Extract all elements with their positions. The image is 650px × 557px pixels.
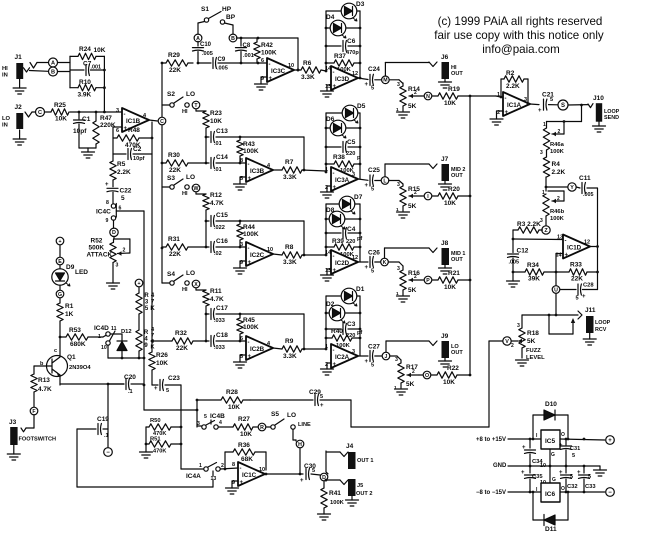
svg-text:IC6: IC6: [545, 491, 556, 498]
resistor R40: [326, 328, 360, 349]
svg-text:5: 5: [572, 453, 575, 459]
svg-text:14: 14: [325, 66, 332, 72]
svg-text:N: N: [426, 94, 430, 100]
ground R41: [318, 514, 331, 520]
svg-text:S5: S5: [271, 411, 279, 418]
resistor R4: [543, 150, 565, 177]
capacitor C17: [205, 305, 304, 324]
svg-text:5: 5: [550, 97, 553, 103]
LED D6: [326, 116, 360, 138]
node D envelope: [110, 220, 118, 236]
svg-text:+: +: [300, 478, 304, 484]
wire IC1A out: [530, 103, 539, 106]
svg-text:2.2K: 2.2K: [506, 83, 520, 90]
svg-text:+: +: [240, 480, 244, 486]
svg-text:D6: D6: [326, 116, 335, 123]
svg-text:OUT 1: OUT 1: [357, 458, 373, 464]
op-amp IC1B: [116, 108, 149, 134]
svg-text:470p: 470p: [346, 50, 359, 56]
svg-text:pf: pf: [357, 330, 362, 336]
wire limiter3 left rail: [325, 204, 328, 256]
LED D5: [326, 103, 366, 123]
ground J7: [439, 181, 452, 190]
resistor R44: [237, 221, 259, 248]
regulator IC5: [536, 430, 565, 458]
svg-text:LO: LO: [186, 174, 195, 181]
svg-text:C2: C2: [133, 146, 142, 153]
svg-text:10pf: 10pf: [73, 128, 87, 135]
op-amp IC2D: [325, 250, 358, 274]
svg-text:C20: C20: [124, 374, 136, 381]
svg-text:C15: C15: [216, 212, 228, 219]
svg-text:p: p: [357, 155, 361, 161]
svg-text:R53: R53: [69, 327, 81, 334]
label GND: [493, 463, 507, 469]
svg-text:100K: 100K: [261, 50, 277, 57]
capacitor C27: [358, 344, 382, 369]
svg-text:LED: LED: [75, 269, 88, 276]
svg-text:5: 5: [312, 468, 315, 474]
wire R18 top line: [522, 314, 578, 317]
svg-text:R5: R5: [117, 161, 126, 168]
svg-text:HI: HI: [182, 191, 188, 197]
jack J2 LO IN: [2, 104, 32, 129]
svg-text:C33: C33: [585, 484, 596, 490]
wire right rail of input network: [103, 56, 106, 113]
wire R52 wiper loop: [114, 239, 130, 256]
svg-text:J8: J8: [441, 240, 449, 247]
svg-text:OUT 2: OUT 2: [356, 491, 372, 497]
resistor R13: [31, 374, 52, 407]
svg-text:O: O: [561, 432, 565, 438]
wire row3 riser: [303, 221, 306, 256]
svg-text:P: P: [426, 278, 430, 284]
svg-text:R28: R28: [226, 389, 238, 396]
pot R46a: [540, 122, 565, 157]
wire J1 to node A: [30, 63, 49, 72]
ground J10: [593, 122, 606, 132]
svg-text:C10: C10: [200, 42, 212, 48]
svg-text:22K: 22K: [169, 167, 181, 174]
svg-text:J6: J6: [441, 54, 449, 61]
svg-text:R38: R38: [333, 154, 345, 161]
svg-text:-: -: [248, 246, 250, 252]
svg-text:-: -: [240, 466, 242, 472]
svg-text:R43: R43: [243, 141, 255, 148]
svg-text:.01: .01: [214, 141, 222, 147]
svg-text:ATTACK: ATTACK: [87, 252, 113, 259]
capacitor C13: [205, 128, 304, 147]
svg-text:+: +: [105, 182, 109, 188]
svg-text:R47: R47: [100, 115, 112, 122]
svg-text:OUT: OUT: [451, 173, 463, 179]
svg-text:M: M: [383, 78, 387, 84]
node V: [503, 337, 511, 345]
svg-text:IC1D: IC1D: [567, 245, 582, 252]
svg-text:IC2D: IC2D: [335, 260, 350, 267]
svg-text:3: 3: [540, 150, 543, 156]
resistor R19: [432, 86, 470, 107]
svg-text:+: +: [365, 82, 369, 88]
svg-text:3: 3: [197, 421, 200, 427]
LED D8: [326, 207, 360, 229]
svg-text:LO: LO: [186, 270, 195, 277]
svg-text:R27: R27: [238, 416, 250, 423]
svg-text:6: 6: [261, 58, 264, 64]
ground IC3D: [321, 85, 334, 97]
ground IC3B: [234, 177, 247, 190]
svg-text:J2: J2: [15, 104, 23, 111]
svg-text:Q1: Q1: [67, 354, 76, 361]
svg-text:220: 220: [346, 151, 355, 157]
ground C12 R34: [507, 271, 526, 287]
resistor R37: [326, 53, 360, 73]
op-amp IC2A: [325, 344, 358, 368]
node O: [423, 371, 431, 379]
svg-text:3.3K: 3.3K: [283, 259, 297, 266]
svg-text:R48: R48: [128, 127, 140, 134]
resistor R30: [162, 152, 207, 174]
svg-text:IC2C: IC2C: [250, 252, 265, 259]
node plus output: [606, 436, 615, 445]
wire limiter1 right rail: [359, 11, 362, 79]
svg-text:X: X: [194, 282, 198, 288]
svg-text:13: 13: [211, 476, 217, 482]
svg-text:3: 3: [395, 357, 398, 363]
svg-text:C11: C11: [579, 175, 591, 182]
wire minus rail: [508, 491, 605, 494]
svg-text:J1: J1: [15, 54, 23, 61]
wiper R17 to O: [407, 369, 423, 377]
svg-text:5K: 5K: [406, 381, 415, 388]
svg-text:D11: D11: [545, 526, 557, 533]
resistor R23: [196, 109, 222, 137]
svg-text:S: S: [561, 103, 565, 109]
svg-text:+: +: [582, 294, 586, 300]
svg-text:G: G: [552, 477, 556, 483]
LED D7: [326, 194, 363, 214]
capacitor C6: [326, 38, 360, 56]
svg-text:10K: 10K: [210, 118, 222, 125]
svg-text:IC3A: IC3A: [335, 177, 350, 184]
svg-text:IC4C: IC4C: [96, 209, 111, 216]
svg-text:R20: R20: [448, 186, 460, 193]
resistor R26: [149, 352, 169, 385]
capacitor C23: [152, 375, 181, 394]
svg-text:K: K: [150, 306, 155, 312]
svg-text:LINE: LINE: [298, 422, 311, 428]
capacitor C16: [206, 221, 246, 257]
resistor R50: [146, 418, 181, 437]
svg-text:10K: 10K: [240, 431, 252, 438]
svg-text:BP: BP: [226, 14, 236, 21]
jack J3 FOOTSWITCH: [9, 419, 56, 445]
ground IC1A: [490, 111, 503, 125]
svg-text:8: 8: [232, 462, 235, 468]
switch S4: [162, 270, 195, 293]
svg-text:C25: C25: [368, 167, 380, 174]
diode D12: [110, 329, 132, 358]
wire limiter2 left rail: [325, 113, 328, 173]
svg-text:22K: 22K: [169, 67, 181, 74]
svg-text:J7: J7: [441, 156, 449, 163]
capacitor C20: [60, 374, 144, 395]
svg-text:HI: HI: [182, 109, 188, 115]
svg-text:LOOP: LOOP: [595, 320, 611, 326]
svg-text:D1: D1: [356, 286, 365, 293]
svg-text:C27: C27: [368, 344, 380, 351]
svg-text:R3 2.2K: R3 2.2K: [517, 221, 541, 228]
svg-text:10K: 10K: [94, 47, 106, 54]
node W: [192, 184, 200, 192]
resistor R5: [110, 154, 131, 180]
svg-text:+: +: [521, 470, 525, 476]
svg-text:D8: D8: [326, 207, 335, 214]
LED D9: [52, 264, 89, 286]
svg-text:c: c: [54, 348, 57, 354]
svg-text:2: 2: [414, 90, 417, 96]
svg-text:1: 1: [497, 92, 500, 98]
svg-text:D2: D2: [326, 301, 335, 308]
svg-text:OUT: OUT: [451, 257, 463, 263]
svg-text:C: C: [160, 119, 164, 125]
wire plus to E: [59, 245, 61, 256]
svg-text:5: 5: [320, 394, 323, 400]
node C input: [36, 108, 45, 117]
resistor R41: [321, 488, 345, 514]
svg-text:+: +: [538, 108, 542, 114]
op-amp IC2C: [240, 242, 273, 266]
wire K to pot R16: [388, 262, 403, 266]
svg-text:100K: 100K: [243, 324, 259, 331]
svg-text:C5: C5: [347, 139, 356, 146]
capacitor C1: [73, 112, 91, 148]
capacitor C26: [358, 250, 381, 275]
svg-text:10: 10: [267, 247, 273, 253]
analog switch IC4C: [96, 200, 144, 224]
resistor R1: [57, 298, 74, 321]
svg-text:C23: C23: [168, 375, 180, 382]
svg-text:8: 8: [240, 158, 243, 164]
svg-text:J3: J3: [9, 419, 17, 426]
svg-text:4: 4: [219, 420, 222, 426]
svg-text:G: G: [551, 452, 555, 458]
svg-text:1: 1: [98, 334, 101, 340]
op-amp IC3C: [261, 58, 294, 82]
ground IC3A: [321, 186, 334, 198]
ground IC2A: [321, 363, 334, 375]
svg-text:D3: D3: [356, 1, 365, 8]
svg-text:5: 5: [371, 363, 374, 369]
svg-text:+: +: [565, 253, 569, 259]
svg-text:10: 10: [259, 467, 265, 473]
svg-text:C3: C3: [347, 321, 356, 328]
capacitor C32: [559, 466, 578, 493]
svg-text:+: +: [269, 76, 273, 82]
svg-text:R26: R26: [156, 352, 168, 359]
svg-text:R19: R19: [448, 86, 460, 93]
svg-text:HI: HI: [2, 66, 8, 72]
svg-text:39K: 39K: [528, 276, 540, 283]
capacitor C24: [358, 66, 382, 92]
capacitor C15: [205, 212, 304, 231]
analog switch IC4A: [181, 463, 224, 483]
wire C23 riser: [180, 385, 183, 469]
svg-text:5: 5: [570, 474, 573, 480]
pot R17: [394, 357, 418, 391]
wire R4 to Y: [545, 177, 568, 191]
svg-text:3: 3: [517, 323, 520, 329]
svg-text:-: -: [248, 340, 250, 346]
svg-text:−: −: [106, 450, 110, 456]
svg-text:-: -: [333, 348, 335, 354]
node B upper: [229, 34, 237, 42]
resistor R7: [273, 159, 326, 181]
svg-text:5: 5: [121, 195, 125, 202]
svg-text:D: D: [112, 230, 116, 236]
svg-text:+: +: [248, 260, 252, 266]
svg-text:+: +: [365, 359, 369, 365]
svg-text:6: 6: [240, 336, 243, 342]
svg-text:D10: D10: [545, 401, 557, 408]
svg-text:+: +: [137, 281, 140, 287]
resistor R12: [196, 192, 224, 221]
resistor R3: [513, 221, 542, 233]
svg-text:J: J: [385, 354, 388, 360]
svg-text:3: 3: [397, 182, 400, 188]
wire limiter4 left rail: [325, 296, 328, 350]
resistor R48: [113, 127, 152, 149]
wire plus rail: [508, 438, 605, 441]
svg-text:GND: GND: [493, 463, 507, 469]
svg-text:IN: IN: [2, 73, 8, 79]
svg-text:SEND: SEND: [604, 115, 619, 121]
capacitor C28: [560, 283, 598, 302]
wiper R18 to V: [511, 339, 522, 349]
svg-text:10K: 10K: [444, 200, 456, 207]
svg-text:5: 5: [371, 269, 374, 275]
svg-text:R42: R42: [261, 42, 273, 49]
ground R50 R51: [140, 444, 153, 458]
wire limiter4 right rail: [359, 296, 362, 356]
svg-text:H: H: [298, 442, 302, 448]
svg-text:3: 3: [352, 172, 355, 178]
svg-text:5: 5: [371, 86, 374, 92]
op-amp IC1A: [497, 92, 530, 116]
LED D1: [326, 286, 365, 306]
svg-text:3: 3: [116, 263, 119, 269]
node E: [56, 257, 64, 265]
svg-text:+: +: [333, 362, 337, 368]
wire row2 riser: [303, 137, 306, 171]
capacitor C5: [326, 139, 361, 161]
ground C1 R47: [79, 148, 96, 158]
svg-text:LO: LO: [2, 116, 11, 122]
svg-text:+: +: [248, 354, 252, 360]
resistor R51: [145, 427, 181, 455]
svg-text:22K: 22K: [169, 251, 181, 258]
wire V to C29 long: [320, 341, 503, 427]
node K: [381, 258, 389, 266]
copyright line 1: [438, 15, 603, 28]
wire J to pot R17: [390, 356, 401, 360]
svg-text:R44: R44: [243, 224, 255, 231]
svg-text:10K: 10K: [444, 100, 456, 107]
svg-text:C22: C22: [120, 188, 132, 195]
resistor R39: [326, 238, 360, 258]
svg-text:FOOTSWITCH: FOOTSWITCH: [19, 437, 57, 443]
svg-text:C32: C32: [567, 484, 578, 490]
svg-text:-: -: [124, 112, 126, 118]
svg-text:R45: R45: [243, 317, 255, 324]
svg-text:O: O: [425, 373, 429, 379]
svg-text:R29: R29: [168, 52, 180, 59]
svg-text:R9: R9: [285, 338, 294, 345]
wire limiter2 right rail: [359, 113, 362, 179]
op-amp IC1D: [556, 235, 591, 259]
svg-text:1: 1: [543, 122, 546, 128]
svg-text:D7: D7: [354, 194, 363, 201]
svg-text:2N39O4: 2N39O4: [69, 365, 91, 371]
svg-text:14: 14: [325, 250, 332, 256]
resistor R11: [196, 288, 224, 314]
svg-text:2: 2: [414, 274, 417, 280]
node M: [382, 76, 390, 84]
capacitor C35: [521, 466, 546, 493]
ground R14: [397, 106, 410, 118]
resistor R24: [70, 46, 106, 60]
node P: [424, 276, 432, 284]
jack J5 OUT 2: [340, 479, 372, 497]
wire D to jacks: [324, 451, 340, 488]
wire IC1D out rail: [590, 188, 599, 290]
switch S5: [266, 411, 311, 429]
wiper R15 to I: [409, 190, 424, 198]
svg-text:1: 1: [394, 385, 397, 391]
wire limiter1 left rail: [325, 11, 328, 72]
capacitor C19: [77, 384, 109, 439]
node B: [49, 67, 58, 76]
wire D9 to G: [59, 285, 61, 290]
svg-text:R34: R34: [527, 262, 539, 269]
svg-text:470K: 470K: [153, 449, 166, 455]
svg-text:3.9K: 3.9K: [78, 92, 92, 99]
svg-text:B: B: [51, 70, 55, 76]
svg-text:Y: Y: [570, 185, 574, 191]
wire S branch to R46a wiper: [543, 105, 582, 136]
svg-text:10K: 10K: [228, 404, 240, 411]
wire IC1B feedback: [113, 127, 122, 154]
svg-text:S3: S3: [167, 175, 175, 182]
wire IC4D to rail: [108, 345, 144, 359]
svg-text:+: +: [58, 239, 61, 245]
svg-text:10pf: 10pf: [133, 156, 145, 162]
resistor R45: [237, 314, 259, 342]
ground IC1C: [226, 481, 239, 494]
svg-text:9: 9: [106, 218, 109, 224]
svg-text:3.3K: 3.3K: [283, 174, 297, 181]
resistor R42: [254, 38, 277, 63]
svg-text:-: -: [505, 96, 507, 102]
svg-text:10K: 10K: [156, 360, 168, 367]
diode D11: [533, 491, 569, 533]
wire R3 to IC1D pin13: [512, 230, 563, 240]
svg-text:S1: S1: [201, 6, 209, 13]
svg-text:-: -: [248, 162, 250, 168]
svg-text:2: 2: [221, 463, 224, 469]
capacitor C14: [206, 137, 246, 173]
wire IC1B out rail: [151, 122, 154, 154]
